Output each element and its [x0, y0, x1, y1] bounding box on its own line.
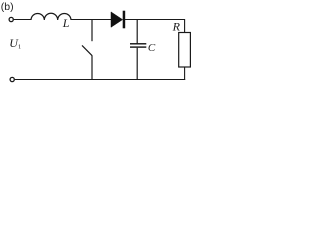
resistor R bottom lead — [184, 67, 186, 80]
wire top-right with corner — [125, 20, 185, 33]
switch S top lead — [91, 20, 93, 42]
svg-text:R: R — [172, 20, 181, 34]
capacitor C bottom lead — [136, 48, 138, 80]
wire top-left — [14, 19, 32, 21]
svg-text:L: L — [62, 16, 70, 30]
switch S blade — [82, 45, 92, 55]
diode D cathode bar — [123, 11, 126, 29]
capacitor C top lead — [136, 20, 138, 44]
terminal bottom-left (open circle) — [10, 77, 14, 81]
terminal top-left (open circle) — [9, 17, 13, 21]
capacitor C bottom plate — [130, 46, 146, 47]
svg-text:C: C — [148, 42, 156, 54]
diode D anode triangle — [111, 12, 123, 27]
inductor L — [31, 13, 71, 20]
svg-text:U1: U1 — [9, 36, 21, 51]
capacitor C top plate — [130, 43, 146, 44]
switch S bottom lead — [91, 55, 93, 79]
wire top-middle — [71, 19, 112, 21]
resistor R box — [179, 33, 191, 68]
bottom rail wire — [15, 79, 186, 81]
svg-text:(b): (b) — [1, 1, 14, 13]
